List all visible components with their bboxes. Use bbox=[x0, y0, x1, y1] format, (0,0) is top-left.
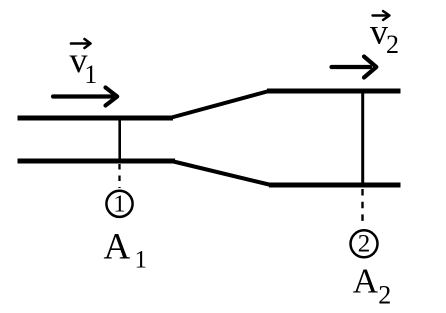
circle marker 1 bbox=[106, 191, 132, 217]
pipe wide top wall bbox=[267, 89, 401, 94]
circle marker 2 bbox=[351, 230, 378, 257]
section line station 1 bbox=[118, 116, 121, 162]
pipe wide bottom wall bbox=[269, 183, 401, 188]
vector hat arrow over v2 bbox=[373, 11, 390, 20]
svg-text:1: 1 bbox=[113, 191, 125, 218]
pipe top expansion wall bbox=[172, 91, 270, 118]
dashed leader station 1 bbox=[118, 164, 120, 188]
svg-text:2: 2 bbox=[358, 231, 371, 258]
svg-text:1: 1 bbox=[135, 246, 148, 273]
svg-text:A: A bbox=[353, 262, 379, 301]
pipe narrow top wall bbox=[18, 116, 174, 121]
vector hat arrow over v1 bbox=[71, 39, 91, 48]
svg-text:2: 2 bbox=[386, 30, 399, 59]
velocity arrow v2 (large) bbox=[332, 57, 377, 78]
velocity arrow v1 (large) bbox=[53, 88, 117, 106]
section line station 2 bbox=[361, 91, 364, 184]
svg-text:1: 1 bbox=[84, 60, 97, 89]
dashed leader station 2 bbox=[361, 189, 363, 226]
pipe bottom expansion wall bbox=[174, 162, 272, 186]
svg-text:A: A bbox=[104, 227, 131, 268]
pipe narrow bottom wall bbox=[18, 159, 176, 164]
svg-text:2: 2 bbox=[378, 281, 391, 310]
